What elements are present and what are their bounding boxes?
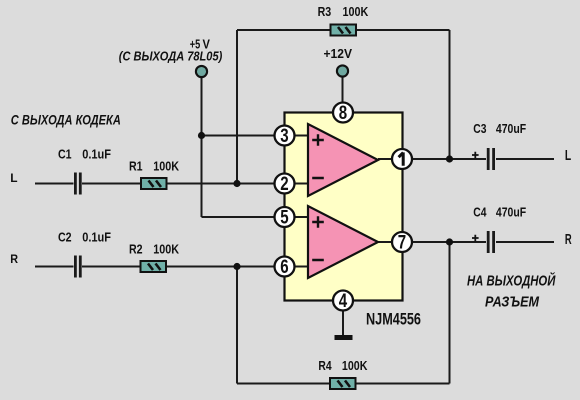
svg-text:100K: 100K (153, 242, 179, 257)
pin 2 (275, 174, 295, 196)
svg-text:С ВЫХОДА КОДЕКА: С ВЫХОДА КОДЕКА (11, 111, 121, 127)
IC body NJM4556 (U1) (285, 113, 403, 301)
label NJM4556 (366, 311, 421, 329)
label RAZEM (485, 294, 540, 310)
label C3 470uF (473, 121, 526, 136)
ground (335, 335, 353, 340)
label R3 100K (318, 4, 369, 19)
svg-text:R2: R2 (129, 242, 143, 257)
svg-text:C2: C2 (58, 230, 72, 245)
label (C VYHODA 78L05) (119, 48, 223, 63)
svg-text:R1: R1 (129, 159, 143, 174)
resistor R4 (330, 378, 356, 389)
svg-text:100K: 100K (342, 358, 368, 373)
svg-text:L: L (565, 148, 571, 164)
label R output (565, 232, 572, 248)
svg-text:100K: 100K (343, 4, 369, 19)
label L output (565, 148, 571, 164)
svg-text:NJM4556: NJM4556 (366, 311, 421, 329)
svg-text:R: R (565, 232, 572, 248)
pin 1 (392, 149, 412, 169)
capacitor C3 polarity plus (472, 152, 479, 159)
svg-text:3: 3 (280, 126, 288, 147)
svg-text:100K: 100K (153, 159, 179, 174)
label L input (10, 171, 18, 185)
pin 8 (333, 103, 353, 125)
label R1 100K (129, 159, 180, 174)
svg-text:7: 7 (398, 233, 406, 254)
svg-text:470uF: 470uF (496, 121, 526, 136)
capacitor C2 (75, 256, 80, 278)
label C2 0.1uF (58, 230, 111, 245)
wire: pin 3 non-inverting input line (202, 135, 309, 137)
pin 3 (275, 126, 295, 148)
wire: pin 7 output line through C4 to R out (378, 241, 554, 243)
pin 7 (392, 232, 412, 254)
pin 5 (275, 207, 295, 229)
svg-text:РАЗЪЕМ: РАЗЪЕМ (485, 294, 540, 310)
capacitor C1 (75, 173, 80, 195)
junction dot at R4 / pin6 line (233, 263, 240, 270)
label C VYHODA KODEKA (11, 111, 121, 127)
label R input (10, 252, 18, 266)
svg-text:0.1uF: 0.1uF (82, 147, 111, 162)
resistor R3 (331, 25, 357, 36)
terminal +5V (196, 66, 207, 77)
wire: pin 4 to ground (342, 301, 344, 337)
wire: R4 feedback right vertical to output R (449, 242, 451, 384)
svg-text:6: 6 (280, 257, 288, 278)
svg-text:8: 8 (339, 103, 347, 124)
wire: L input line to pin 2 (35, 183, 308, 185)
svg-text:(С ВЫХОДА 78L05): (С ВЫХОДА 78L05) (119, 48, 223, 63)
resistor R2 (141, 261, 167, 272)
junction dot at +5V / pin3 line (198, 132, 205, 139)
svg-text:5: 5 (280, 208, 289, 229)
wire: R3 feedback right vertical to output L (449, 30, 451, 159)
svg-text:R: R (10, 252, 18, 266)
op-amp U1A (308, 124, 378, 196)
svg-text:+12V: +12V (324, 46, 353, 61)
junction dot at R4 / output R (446, 238, 453, 245)
wire: R input line to pin 6 (35, 266, 308, 268)
svg-text:R3: R3 (318, 4, 332, 19)
wire: pin 5 line from +5V corner (202, 216, 309, 218)
label C1 0.1uF (58, 147, 111, 162)
wire: R3 feedback top horizontal (237, 29, 450, 31)
label C4 470uF (473, 205, 526, 220)
label NA VYHODNOJ (467, 271, 556, 289)
svg-text:R4: R4 (318, 358, 332, 373)
svg-text:C1: C1 (58, 147, 72, 162)
wire: R4 feedback left vertical (236, 267, 238, 384)
wire: +12V vertical to pin 8 (342, 77, 344, 112)
label R4 100K (318, 358, 368, 373)
junction dot at R3 / pin2 line (233, 180, 240, 187)
wire: pin 1 output line through C3 to L out (378, 158, 554, 160)
capacitor C4 polarity plus (472, 235, 479, 242)
label R2 100K (129, 242, 180, 257)
capacitor C4 (488, 231, 493, 253)
wire: R4 feedback bottom horizontal (237, 383, 450, 385)
svg-text:C4: C4 (473, 205, 487, 220)
svg-text:2: 2 (280, 174, 288, 195)
wire: R3 feedback left vertical (236, 30, 238, 184)
resistor R1 (141, 178, 167, 189)
svg-text:L: L (10, 171, 18, 185)
svg-text:470uF: 470uF (496, 205, 526, 220)
label +12V (324, 46, 353, 61)
svg-text:4: 4 (339, 291, 348, 312)
op-amp U1B (308, 206, 378, 278)
svg-text:НА ВЫХОДНОЙ: НА ВЫХОДНОЙ (467, 271, 556, 289)
capacitor C3 (488, 148, 493, 170)
svg-text:C3: C3 (473, 121, 486, 136)
label +5V (190, 37, 210, 52)
junction dot at R3 / output L (446, 155, 453, 162)
svg-text:0.1uF: 0.1uF (82, 230, 111, 245)
pin 4 (333, 291, 353, 313)
wire: +5V vertical drop (201, 78, 203, 217)
terminal +12V (337, 65, 348, 76)
pin 6 (275, 257, 295, 279)
